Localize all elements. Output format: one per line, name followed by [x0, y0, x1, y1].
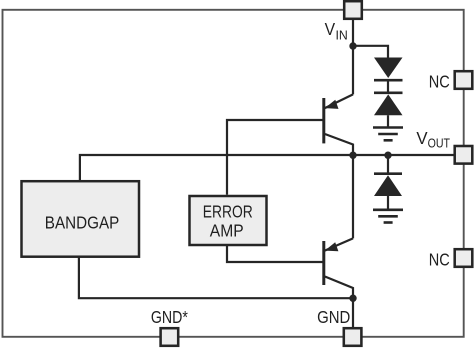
svg-text:NC: NC — [429, 249, 450, 269]
svg-text:ERROR: ERROR — [203, 202, 253, 222]
svg-text:IN: IN — [336, 27, 348, 42]
svg-text:GND: GND — [317, 307, 350, 327]
svg-text:V: V — [325, 19, 336, 39]
svg-text:AMP: AMP — [210, 221, 244, 241]
svg-text:GND*: GND* — [151, 307, 188, 327]
svg-text:BANDGAP: BANDGAP — [45, 212, 120, 232]
svg-text:NC: NC — [429, 71, 450, 91]
svg-text:OUT: OUT — [428, 136, 450, 151]
svg-text:V: V — [416, 128, 427, 148]
